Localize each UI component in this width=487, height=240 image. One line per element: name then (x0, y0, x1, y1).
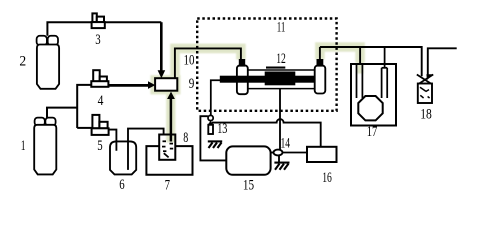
wire 13 to analyzer 16 with hop (212, 119, 321, 146)
thick wire bubbler to mixer (170, 98, 173, 141)
label 15 (243, 178, 254, 194)
svg-text:15: 15 (243, 178, 254, 194)
label 18 (420, 107, 432, 123)
trap inlet stem (359, 47, 361, 64)
arrow into mixer left (148, 81, 155, 89)
gas cylinder 2 (37, 36, 60, 89)
highlight: mixer 9 halo (150, 75, 180, 94)
arrow into mixer bottom (167, 92, 175, 99)
svg-text:5: 5 (97, 138, 102, 154)
svg-text:6: 6 (119, 177, 125, 193)
label 17 (367, 124, 378, 140)
svg-text:16: 16 (322, 170, 332, 186)
cold trap dewar 17 (351, 64, 396, 126)
svg-text:12: 12 (276, 51, 286, 67)
reactor outlet riser wire (319, 47, 321, 59)
label 2 (19, 53, 26, 69)
reactor outlet cap (317, 59, 324, 67)
highlight: reactor outlet path (320, 47, 363, 74)
svg-text:9: 9 (189, 76, 195, 92)
svg-text:13: 13 (217, 121, 227, 137)
trap U-tube right (382, 68, 388, 98)
label 12 (276, 51, 286, 67)
junction circle 13 (208, 115, 213, 120)
label 8 (183, 130, 188, 146)
bubbler inner tube 8 (159, 135, 175, 160)
svg-text:3: 3 (95, 32, 100, 48)
exhaust manifold wire (320, 47, 422, 76)
svg-text:11: 11 (277, 20, 286, 36)
reactor inlet cap (239, 59, 245, 67)
vial content marks (420, 87, 430, 98)
trap bulb (358, 96, 382, 120)
label 3 (95, 32, 100, 48)
furnace top bar (266, 67, 285, 69)
dashed enclosure 11 (197, 19, 336, 111)
svg-text:10: 10 (184, 53, 195, 69)
svg-text:8: 8 (183, 130, 188, 146)
svg-text:4: 4 (98, 93, 104, 109)
label 6 (119, 177, 125, 193)
svg-text:14: 14 (281, 136, 291, 152)
reactor inner rod (220, 76, 315, 83)
label 11 (277, 20, 286, 36)
mass spectrometer 15 (226, 146, 270, 174)
label 9 (189, 76, 195, 92)
mixer 9 (155, 78, 177, 91)
svg-text:7: 7 (165, 178, 171, 194)
wire MFC 3 to mixer drop (105, 22, 162, 71)
mass flow controller 3 (92, 13, 105, 28)
reactor left end fitting (237, 65, 248, 94)
wire MFC 5 into flask 6 (109, 130, 117, 151)
reactor tube walls (248, 70, 315, 89)
wire cylinder 1 to junction (47, 108, 77, 118)
label 5 (97, 138, 102, 154)
vial 18 body (418, 84, 432, 104)
vial outlet wire to vent (428, 48, 457, 76)
wire cylinder 2 to MFC 3 (47, 22, 91, 36)
mass flow controller 5 (92, 115, 109, 135)
line 10 wire (175, 48, 241, 78)
thick wire MFC 4 to mixer (108, 84, 148, 87)
highlight: line 10 path (175, 48, 241, 76)
svg-text:1: 1 (21, 138, 26, 154)
label 10 (184, 53, 195, 69)
vial 18 funnel (417, 74, 434, 83)
trap outlet stem (384, 47, 386, 68)
flask 6 outlet tube to bubbler (128, 129, 164, 170)
svg-text:17: 17 (367, 124, 378, 140)
furnace block 12 (265, 72, 296, 86)
stub 14 to ground (278, 155, 280, 162)
gas cylinder 1 (34, 118, 56, 175)
valve 14 (274, 150, 283, 156)
label 1 (21, 138, 26, 154)
junction riser wire (77, 85, 91, 128)
reactor outlet down wire (279, 89, 281, 150)
transducer 13 body (208, 121, 214, 134)
svg-text:2: 2 (19, 53, 26, 69)
trap U-tube left (357, 64, 363, 99)
wire 15 to 14 (271, 152, 274, 154)
arrow into mixer top (158, 70, 166, 78)
wire junction to MFC 5 (77, 127, 91, 129)
ground at 13 (208, 141, 222, 148)
label 7 (165, 178, 171, 194)
highlight: bubbler-to-mixer path (166, 93, 175, 142)
label 14 (281, 136, 291, 152)
wire 14 to 16 (283, 152, 308, 154)
wire 13 to MS 15 (200, 116, 226, 160)
svg-text:18: 18 (420, 107, 432, 123)
label 4 (98, 93, 104, 109)
label 13 (217, 121, 227, 137)
tube 8 content marks (162, 141, 173, 157)
bubbler vessel 7 (146, 146, 192, 175)
label 16 (322, 170, 332, 186)
thermocouple lead to 13 (211, 80, 220, 115)
flask 6 (110, 141, 136, 174)
analyzer 16 (307, 147, 337, 162)
bubbler tube 8 white base (159, 135, 175, 160)
reactor right end fitting (315, 66, 326, 94)
mass flow controller 4 (91, 70, 108, 87)
ground at 14 (274, 163, 289, 170)
